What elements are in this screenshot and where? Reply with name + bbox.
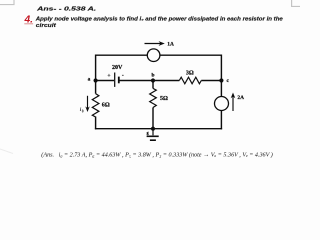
svg-text:g: g	[147, 130, 149, 135]
current source 1A circle	[147, 49, 160, 62]
faint shadow bottom-left	[0, 149, 13, 154]
resistor 3ohm zigzag	[179, 77, 201, 84]
current arrow i0	[87, 96, 89, 109]
svg-text:Ans- - 0.538 A.: Ans- - 0.538 A.	[36, 6, 97, 12]
svg-text:2A: 2A	[237, 95, 244, 101]
wire: left vertical lower	[95, 117, 97, 130]
svg-text:1A: 1A	[167, 41, 174, 47]
voltage source 20V battery short plate	[118, 77, 120, 84]
node b dot	[151, 78, 155, 82]
resistor 5ohm zigzag	[150, 88, 157, 107]
node a dot	[94, 78, 98, 82]
1A arrow	[145, 43, 161, 45]
svg-text:(Ans. i₀ = 2.73 A, P₆ = 44.6: (Ans. i₀ = 2.73 A, P₆ = 44.63W , P₅ = 3.…	[41, 151, 272, 158]
svg-text:3Ω: 3Ω	[186, 71, 194, 77]
wire: b down to 5ohm	[152, 81, 154, 89]
wire: a to battery	[96, 80, 114, 82]
current source 2A circle	[215, 97, 229, 111]
wire: b to 3ohm	[153, 80, 179, 82]
svg-text:+: +	[107, 73, 110, 79]
gray page-corner top-left	[0, 0, 14, 5]
resistor 6ohm zigzag	[92, 94, 99, 117]
red underline under 4.	[24, 23, 33, 24]
wire: battery to b	[119, 80, 153, 82]
2A arrow	[232, 96, 234, 111]
svg-text:circuit: circuit	[36, 23, 56, 29]
wire: 5ohm to bottom	[152, 108, 154, 129]
voltage source 20V battery long plate	[114, 73, 116, 87]
svg-text:0: 0	[82, 110, 84, 114]
wire: 3ohm to c	[201, 80, 221, 82]
svg-text:6Ω: 6Ω	[102, 102, 110, 108]
node c dot	[219, 78, 223, 82]
ground junction dot	[151, 127, 155, 131]
wire: top right segment	[160, 54, 222, 56]
wire: left vertical upper	[95, 55, 97, 94]
wire: right vertical lower	[220, 110, 222, 129]
svg-text:a: a	[88, 76, 91, 82]
wire: bottom	[95, 128, 222, 130]
wire: right vertical upper	[220, 55, 222, 97]
gray page-corner top-right	[292, 0, 300, 6]
ground symbol	[152, 129, 154, 136]
wire: top left segment	[96, 54, 148, 56]
svg-text:5Ω: 5Ω	[160, 96, 168, 102]
svg-text:-: -	[122, 72, 124, 78]
svg-text:20V: 20V	[112, 65, 123, 71]
svg-text:b: b	[152, 72, 155, 78]
svg-text:Apply node voltage analysis to: Apply node voltage analysis to find i₀ a…	[35, 16, 283, 22]
